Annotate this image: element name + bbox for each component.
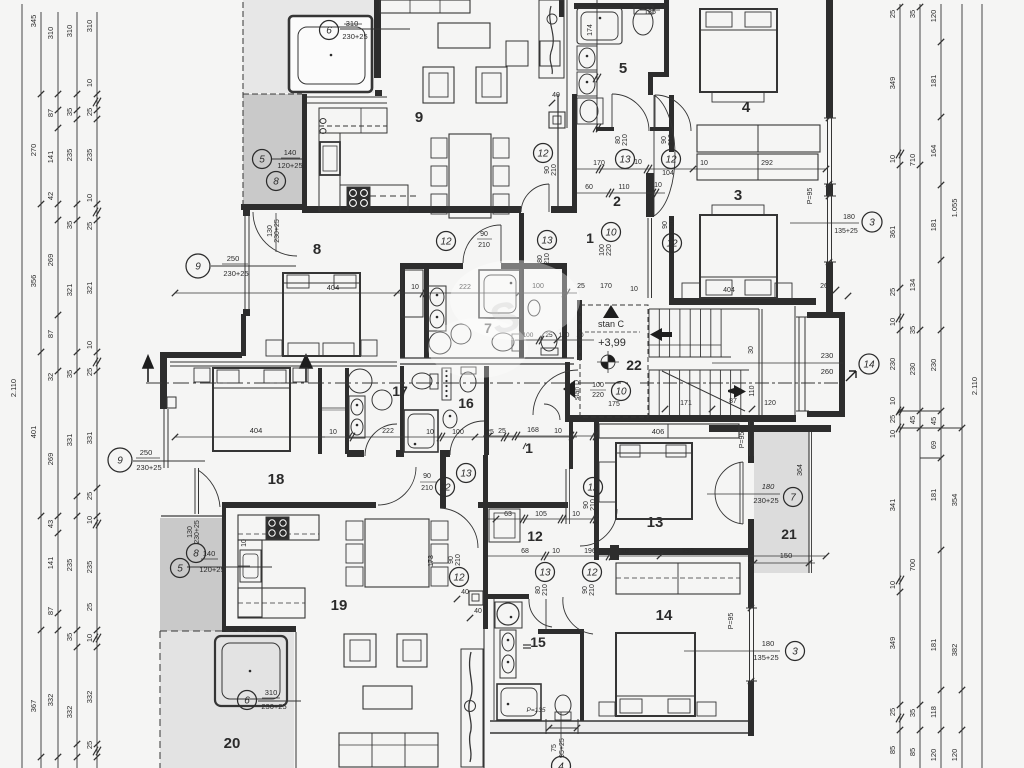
kitchen19 stove [266,517,289,539]
wall building bottom [490,721,754,733]
svg-text:404: 404 [250,426,263,435]
svg-text:42: 42 [46,192,55,200]
svg-text:10: 10 [654,182,662,189]
svg-text:150: 150 [780,551,793,560]
svg-text:9: 9 [415,109,423,126]
svg-text:12: 12 [537,149,549,160]
svg-text:12: 12 [440,237,452,248]
bath5 wall bottom ticks [596,127,614,131]
svg-text:87: 87 [46,109,55,117]
svg-text:35: 35 [65,221,74,229]
svg-text:356: 356 [29,275,38,288]
wall stan C dashes [580,305,648,417]
circled 9 room18 [108,448,132,472]
wall hall2 pocket west [646,173,654,217]
kitchen sink top [320,142,340,175]
svg-text:25: 25 [85,492,94,500]
bed room13 [616,443,692,519]
svg-text:404: 404 [723,287,735,294]
bath16 toilet [460,372,476,392]
wall junction hall12-14 [610,545,619,560]
svg-text:17: 17 [392,383,408,399]
svg-text:230+25: 230+25 [274,219,281,243]
entry arrow stanC [563,380,575,398]
svg-text:120+25: 120+25 [277,161,302,170]
bath5 basin A [577,46,597,70]
svg-text:80: 80 [615,136,622,144]
window room8 west [244,209,246,316]
kitchen dash [370,195,420,197]
svg-text:230: 230 [929,359,938,372]
bed8 nightstands [266,340,282,356]
gray top edge [161,515,222,517]
svg-text:210: 210 [478,242,490,249]
kitchen19 col [238,540,262,617]
svg-text:220: 220 [606,244,613,256]
svg-text:15: 15 [530,634,546,650]
window stairwell [798,317,800,411]
stairs inner edge [758,309,760,415]
svg-text:100: 100 [452,429,464,436]
room19 armchairs [344,634,376,667]
wall kitchen left [302,94,307,212]
door arc room18 west [198,470,220,507]
stairs arrow up [650,328,672,341]
svg-text:13: 13 [460,469,472,480]
svg-text:1.055: 1.055 [950,199,959,218]
svg-text:12: 12 [439,483,451,494]
svg-text:25: 25 [888,708,897,716]
svg-text:87: 87 [46,330,55,338]
svg-text:5: 5 [619,60,627,77]
circled 4 bottom [552,757,571,768]
svg-text:140: 140 [203,549,216,558]
svg-text:4: 4 [742,99,751,116]
wc15 shower [497,684,541,720]
bath17 circleA [348,369,372,393]
room9 side chairs [506,41,528,66]
wall outer right upper [826,0,833,118]
door arc room13 entry [580,509,617,546]
svg-text:3: 3 [869,218,875,229]
shaft hall12 [469,591,483,605]
svg-text:331: 331 [85,432,94,445]
door D arc room13 [715,462,743,524]
svg-text:90: 90 [582,586,589,594]
kitchen stove top [340,185,408,211]
loggia fill left-middle dark [160,518,222,631]
svg-text:25: 25 [498,428,506,435]
wall gray col east [222,505,226,632]
svg-text:10: 10 [572,511,580,518]
svg-text:10: 10 [615,387,627,398]
window room4 P=95 [827,118,829,184]
svg-text:40: 40 [461,589,469,596]
svg-text:110: 110 [618,184,629,191]
svg-text:85: 85 [908,748,917,756]
svg-text:13: 13 [539,568,551,579]
wall room9 bottom west [302,206,521,213]
svg-text:6: 6 [326,26,332,37]
svg-text:43: 43 [46,520,55,528]
right chain ticks [897,4,903,10]
dim row y556 [488,555,826,557]
terrace 20 fill light [160,631,294,768]
circled 13 12 row [616,150,635,169]
svg-text:10: 10 [888,397,897,405]
wall room13 east [748,417,754,463]
wall room9 bottom east [551,206,577,213]
wall bath5/hall east [664,0,669,75]
svg-text:10: 10 [85,194,94,202]
svg-text:25: 25 [85,741,94,749]
room19 chairs right [431,521,448,540]
dim row 404 room18 [175,436,325,438]
wc15 basins [500,630,516,678]
svg-text:35: 35 [908,10,917,18]
bath16 door arc [544,404,560,420]
dim chain R5 [981,4,983,768]
svg-text:349: 349 [888,637,897,650]
svg-text:13: 13 [619,155,631,166]
hall2 door arc [655,95,691,131]
dim chain R3 [940,4,942,768]
wall room3 east entry [669,216,674,298]
wall room8/bath7 strip [424,268,429,358]
svg-text:P=95: P=95 [728,613,735,630]
bed room4 [700,9,777,92]
svg-text:210: 210 [421,485,433,492]
svg-text:310: 310 [46,27,55,40]
svg-text:75: 75 [551,744,558,752]
wc small toilet [541,331,557,351]
bed3 bench [712,205,764,215]
kitchen column left [319,133,340,211]
svg-text:90: 90 [480,231,488,238]
svg-text:141: 141 [46,151,55,164]
wall wc15 block [488,594,529,599]
wc pot hall top [633,9,653,35]
svg-text:120: 120 [929,749,938,762]
svg-text:63: 63 [504,511,512,518]
bath17 door arc [365,424,397,456]
section line main [146,382,630,384]
svg-text:+3,99: +3,99 [598,337,626,349]
svg-text:404: 404 [327,283,340,292]
svg-text:68: 68 [521,548,529,555]
svg-text:10: 10 [85,341,94,349]
svg-text:10: 10 [888,318,897,326]
bath5 basin B [577,72,597,96]
svg-text:25: 25 [888,288,897,296]
bath7 toilet [492,333,514,351]
bath17 basins [349,396,365,438]
room19 sofa [339,733,438,767]
shaft column room9 top [539,0,564,78]
bed4 bench [712,92,764,102]
svg-text:332: 332 [85,691,94,704]
svg-text:87: 87 [46,607,55,615]
svg-text:175: 175 [608,401,620,408]
left chain ticks [38,91,44,97]
wall wc15 east [580,634,584,732]
svg-text:130: 130 [267,225,274,237]
svg-text:14: 14 [656,607,673,624]
dim chain boundary left [21,4,23,768]
circled 10 stanC [612,382,631,401]
window sills room14 [748,605,754,611]
kitchen19 counter top [238,515,319,540]
stairs section dashdot [640,382,838,384]
svg-text:30: 30 [748,346,755,354]
svg-text:235: 235 [85,149,94,162]
door leaf room18 west [194,468,196,514]
svg-text:310: 310 [85,20,94,33]
wall outer right mid [826,184,833,196]
dim row 222 lower [322,436,577,438]
room14 door arc [563,597,593,634]
bath7 shower [479,270,521,318]
svg-text:10: 10 [888,155,897,163]
wc small basin [528,300,540,316]
svg-text:40: 40 [552,92,560,99]
wall room18/closet [318,368,322,454]
svg-text:P=95: P=95 [807,188,814,205]
svg-text:401: 401 [29,426,38,439]
circled 12 room3 [663,234,682,253]
svg-text:230+25: 230+25 [753,496,778,505]
wall room14 top [599,548,754,555]
svg-text:196: 196 [584,548,596,555]
svg-text:181: 181 [929,219,938,232]
bath16 shower [404,410,438,452]
wall stair hall west [577,300,582,360]
wall bath16 east [484,366,489,455]
terrace20 dashes [160,630,296,632]
svg-text:2.110: 2.110 [9,379,18,397]
svg-text:1: 1 [586,230,594,246]
svg-text:310: 310 [65,25,74,38]
window sill marks right [826,115,832,121]
svg-text:222: 222 [382,428,394,435]
svg-text:406: 406 [652,427,665,436]
svg-text:120: 120 [950,749,959,762]
svg-text:118: 118 [929,706,938,718]
bed room8 [283,273,360,356]
watermark fade [450,260,580,340]
bath7 round [429,332,451,354]
dim row y436 [483,435,594,437]
svg-text:25: 25 [85,108,94,116]
stan C texts [603,305,619,318]
shower terrace20 [215,636,287,706]
circled 12 room9 [534,144,553,163]
door arc room9 south [521,184,549,212]
wall vestibule west [440,455,446,508]
svg-text:100: 100 [592,382,604,389]
dim chain L1 [40,12,42,768]
circled 12 room13 [584,478,603,497]
terrace fill top-left dark [243,94,303,206]
svg-text:8: 8 [273,177,279,188]
kitchen block top [319,108,387,133]
svg-text:3: 3 [792,647,798,658]
wall room13 west [594,421,599,511]
svg-text:25: 25 [85,222,94,230]
svg-text:104: 104 [662,170,674,177]
bath17 toilet [412,373,432,389]
room19 coffee table [363,686,412,709]
wall under stairs [565,415,796,422]
svg-text:10: 10 [634,159,642,166]
svg-text:181: 181 [929,639,938,652]
kitchen19 bottom [238,588,305,618]
stairs right boundary [794,306,796,415]
wall room8 left col [241,314,246,356]
wall divider apartments mid [170,361,397,363]
wall room13/hall12 [594,500,599,560]
wc15 sink [495,602,522,628]
room19 chairs left [346,521,363,540]
svg-text:9: 9 [195,262,201,273]
svg-text:710: 710 [908,154,917,167]
svg-text:10: 10 [85,79,94,87]
shaft dotted 16 [442,368,451,400]
svg-text:210: 210 [590,499,597,511]
wall pocket room4 doors [648,77,653,95]
svg-text:26: 26 [820,283,828,290]
svg-text:12: 12 [453,573,465,584]
svg-text:8: 8 [193,549,199,560]
svg-text:700: 700 [908,559,917,572]
wall bath7 top [400,263,463,269]
svg-text:13: 13 [647,514,664,531]
svg-text:170: 170 [559,332,570,339]
circled 6 t20 [238,691,257,710]
dim chain R2 [919,4,921,768]
svg-text:171: 171 [680,400,692,407]
svg-text:90: 90 [423,473,431,480]
svg-text:25: 25 [888,10,897,18]
window room18 west [163,409,165,468]
circled 13 hall [538,231,557,250]
bed14 nightstands [599,702,615,716]
wall top bath5 [574,3,664,9]
bed room14 [616,633,695,716]
bed room18 [213,368,290,451]
svg-text:12: 12 [586,568,598,579]
wall shaft room9 east [557,94,559,206]
window room13 [749,421,751,456]
svg-text:210: 210 [668,134,675,146]
entry arc stanD [533,370,578,415]
svg-text:35: 35 [908,709,917,717]
svg-text:120+25: 120+25 [199,565,224,574]
svg-text:230: 230 [821,351,834,360]
svg-text:13: 13 [541,236,553,247]
svg-text:5: 5 [177,564,183,575]
svg-text:10: 10 [329,429,337,436]
kitchen19 leader [187,566,272,568]
svg-text:310: 310 [346,19,359,28]
svg-text:12: 12 [587,483,599,494]
svg-text:2.110: 2.110 [970,377,979,395]
circled 6 top leader [340,28,410,30]
svg-text:235: 235 [65,559,74,572]
circled 5-8 top [253,150,272,169]
svg-text:9: 9 [117,456,123,467]
room9 armchair B [476,67,507,103]
svg-text:168: 168 [527,427,539,434]
svg-text:135+25: 135+25 [753,653,778,662]
wall terrace dark bottom [241,204,307,210]
svg-text:P=95: P=95 [739,432,746,449]
wall room9/bath5 [572,94,577,213]
svg-text:310: 310 [265,688,278,697]
wall hall1 east [565,362,570,421]
svg-text:10: 10 [411,284,419,291]
svg-text:2: 2 [613,193,621,209]
room9 dining table [449,134,491,218]
closet shelves 18 [322,407,345,409]
svg-text:80: 80 [537,255,544,263]
svg-text:12: 12 [527,528,543,544]
pier right of terrace [375,90,382,96]
svg-text:19: 19 [331,597,348,614]
svg-text:230: 230 [908,363,917,376]
svg-text:110: 110 [749,385,756,396]
svg-text:stan C: stan C [598,319,625,329]
wall wc east [562,268,567,358]
svg-text:120: 120 [764,400,776,407]
svg-text:250: 250 [140,448,153,457]
door arc bath16 [450,421,484,455]
wall room14 east low [748,681,754,736]
stairs lower flight [648,370,650,415]
wc15 toilet [555,695,571,715]
svg-text:140: 140 [284,148,297,157]
hall12 closet [489,509,520,542]
wall line room9 strip [566,0,568,128]
wall bath17-16 bottom [347,450,364,457]
svg-text:105: 105 [535,511,547,518]
bottom door dims [545,719,547,734]
dim row y169 [577,168,826,170]
svg-text:382: 382 [950,644,959,657]
stairs cut line [662,371,745,411]
svg-text:354: 354 [950,494,959,507]
svg-text:141: 141 [46,557,55,570]
svg-text:292: 292 [682,548,694,555]
shower tray terrace top [289,16,372,92]
svg-text:135+25: 135+25 [834,228,858,235]
bath5 door arc [612,94,649,131]
stair outer wall bump [807,312,845,318]
wall terrace21 top [709,425,831,432]
wall room3 bottom [669,298,816,305]
dim chain R1 [899,4,901,768]
svg-text:269: 269 [46,254,55,267]
svg-text:210: 210 [542,584,549,596]
svg-text:100: 100 [599,244,606,256]
svg-text:35: 35 [65,108,74,116]
svg-text:87: 87 [729,398,737,405]
kitchen top band [307,96,387,98]
svg-text:25: 25 [85,368,94,376]
room13 wardrobe [599,424,739,438]
stairs mid rail [649,344,721,346]
svg-text:180: 180 [762,482,775,491]
